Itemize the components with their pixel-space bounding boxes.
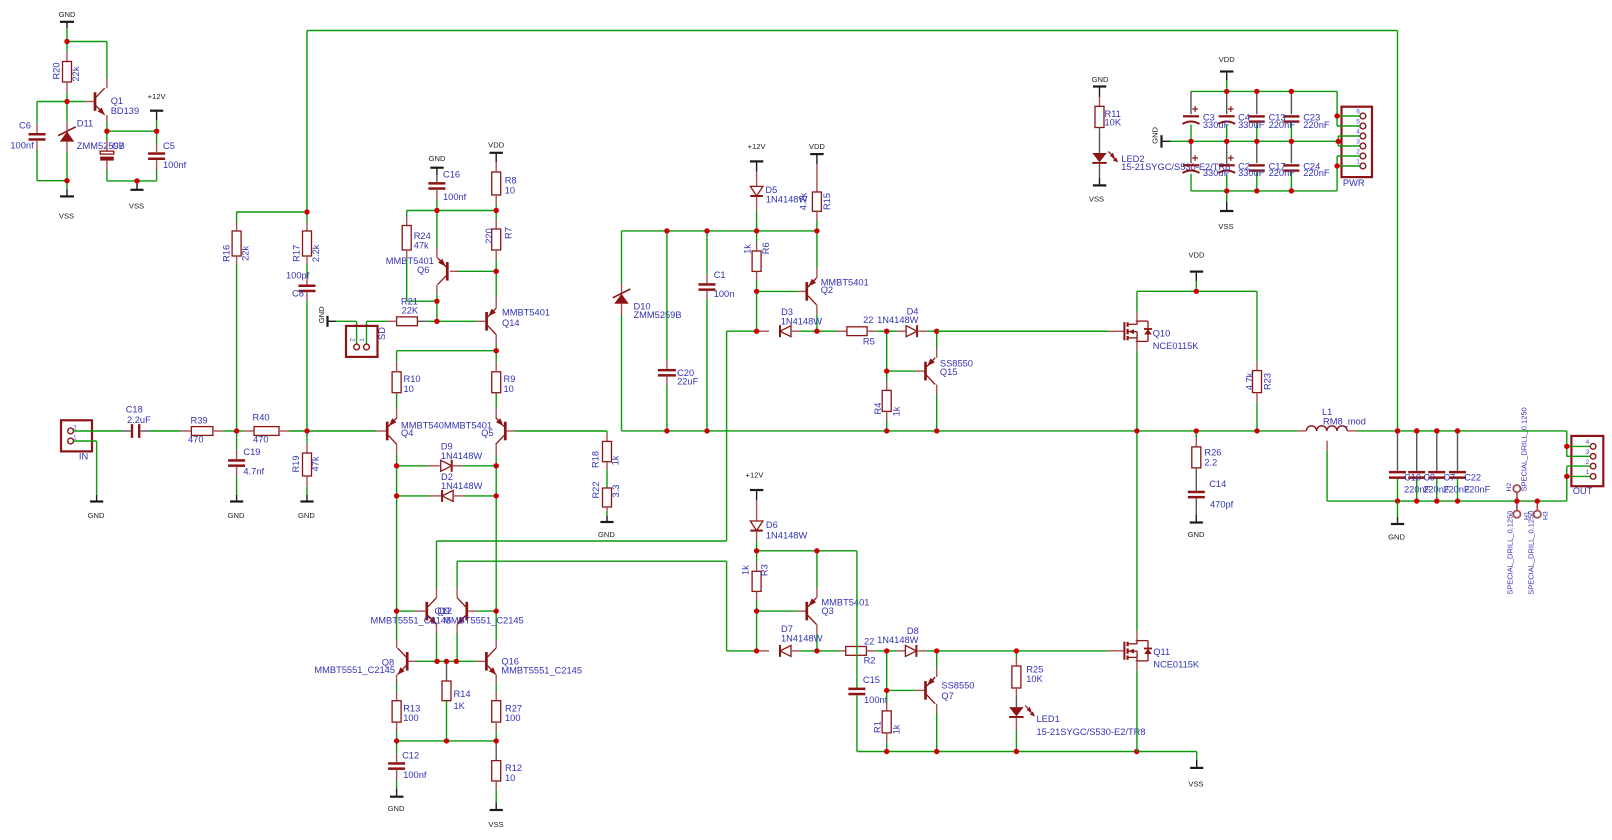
svg-text:220nF: 220nF xyxy=(1464,485,1491,495)
svg-text:MMBT5401: MMBT5401 xyxy=(502,308,550,318)
svg-text:OUT: OUT xyxy=(1573,486,1593,496)
svg-text:VDD: VDD xyxy=(488,141,505,150)
svg-text:R7: R7 xyxy=(504,227,514,239)
svg-text:2.2k: 2.2k xyxy=(311,244,321,262)
svg-text:R1: R1 xyxy=(872,721,882,733)
svg-text:1: 1 xyxy=(1586,469,1590,476)
svg-text:R3: R3 xyxy=(760,564,770,576)
svg-text:R40: R40 xyxy=(253,413,270,423)
svg-text:R17: R17 xyxy=(292,245,302,262)
svg-text:3: 3 xyxy=(1586,449,1590,456)
svg-text:VSS: VSS xyxy=(59,211,74,220)
svg-text:22: 22 xyxy=(863,315,873,325)
svg-text:H3: H3 xyxy=(1543,511,1550,520)
svg-text:100nf: 100nf xyxy=(10,141,34,151)
svg-text:1: 1 xyxy=(359,338,366,342)
svg-text:GND: GND xyxy=(88,511,105,520)
svg-text:100: 100 xyxy=(403,713,419,723)
svg-text:GND: GND xyxy=(59,10,76,19)
svg-text:Q14: Q14 xyxy=(502,318,520,328)
svg-text:100: 100 xyxy=(505,713,521,723)
svg-text:2.2uF: 2.2uF xyxy=(127,415,151,425)
svg-text:22k: 22k xyxy=(240,246,250,261)
svg-text:1N4148W: 1N4148W xyxy=(781,316,823,326)
svg-text:1N4148W: 1N4148W xyxy=(766,531,808,541)
svg-text:VDD: VDD xyxy=(1219,55,1236,64)
svg-text:L1: L1 xyxy=(1322,407,1332,417)
svg-text:R8: R8 xyxy=(505,176,517,186)
svg-text:VDD: VDD xyxy=(1188,250,1205,259)
svg-text:GND: GND xyxy=(429,154,446,163)
svg-text:VSS: VSS xyxy=(129,202,144,211)
svg-text:R9: R9 xyxy=(504,374,516,384)
svg-text:2: 2 xyxy=(1586,459,1590,466)
svg-text:4: 4 xyxy=(1356,129,1360,136)
svg-text:GND: GND xyxy=(598,530,615,539)
svg-text:R4: R4 xyxy=(873,403,883,415)
svg-text:C10: C10 xyxy=(1404,473,1421,483)
svg-text:Q4: Q4 xyxy=(401,428,413,438)
svg-text:1N4148W: 1N4148W xyxy=(877,315,919,325)
svg-text:3: 3 xyxy=(1356,139,1360,146)
svg-text:330uF: 330uF xyxy=(1203,120,1230,130)
svg-text:1k: 1k xyxy=(742,244,752,254)
svg-text:R27: R27 xyxy=(505,703,522,713)
svg-text:22K: 22K xyxy=(402,306,419,316)
svg-text:NCE0115K: NCE0115K xyxy=(1153,660,1200,670)
svg-text:GND: GND xyxy=(1388,533,1405,542)
svg-text:470: 470 xyxy=(253,435,269,445)
svg-text:R10: R10 xyxy=(404,374,421,384)
svg-text:R39: R39 xyxy=(191,416,208,426)
svg-text:R22: R22 xyxy=(591,481,601,498)
svg-text:4.7k: 4.7k xyxy=(1244,372,1254,390)
svg-text:R16: R16 xyxy=(221,245,231,262)
svg-text:1: 1 xyxy=(1356,159,1360,166)
svg-text:1N4148W: 1N4148W xyxy=(441,481,483,491)
svg-text:MMBT5551_C2145: MMBT5551_C2145 xyxy=(501,666,582,676)
svg-text:330uF: 330uF xyxy=(1238,120,1265,130)
svg-text:330uF: 330uF xyxy=(1238,168,1265,178)
svg-text:47k: 47k xyxy=(414,241,429,251)
svg-text:GND: GND xyxy=(317,306,326,323)
svg-text:Q15: Q15 xyxy=(940,367,958,377)
svg-text:Q6: Q6 xyxy=(417,265,429,275)
svg-text:GND: GND xyxy=(388,804,405,813)
svg-text:R25: R25 xyxy=(1026,665,1043,675)
svg-text:10: 10 xyxy=(404,384,414,394)
svg-text:47k: 47k xyxy=(310,456,320,471)
svg-text:Q11: Q11 xyxy=(1153,647,1170,657)
svg-text:2.2: 2.2 xyxy=(1204,458,1217,468)
svg-text:Q7: Q7 xyxy=(941,691,953,701)
svg-text:H2: H2 xyxy=(1506,483,1513,492)
svg-text:SD: SD xyxy=(377,327,387,340)
svg-text:Q9: Q9 xyxy=(438,606,450,616)
svg-text:C12: C12 xyxy=(402,751,419,761)
svg-text:15-21SYGC/S530-E2/TR8: 15-21SYGC/S530-E2/TR8 xyxy=(1037,727,1146,737)
svg-text:22uF: 22uF xyxy=(677,377,699,387)
svg-text:R13: R13 xyxy=(403,703,420,713)
svg-text:SPECIAL_DRILL_0.1250: SPECIAL_DRILL_0.1250 xyxy=(1526,511,1535,595)
svg-text:6: 6 xyxy=(1356,109,1360,116)
svg-text:NCE0115K: NCE0115K xyxy=(1153,341,1200,351)
svg-text:+12V: +12V xyxy=(746,471,765,480)
svg-text:MMBT5551_C2145: MMBT5551_C2145 xyxy=(371,616,452,626)
svg-text:D7: D7 xyxy=(781,624,793,634)
svg-text:D6: D6 xyxy=(766,520,778,530)
svg-text:220nF: 220nF xyxy=(1303,168,1330,178)
svg-text:10K: 10K xyxy=(1026,674,1043,684)
svg-text:Q5: Q5 xyxy=(481,428,493,438)
svg-text:100n: 100n xyxy=(714,289,735,299)
svg-text:C6: C6 xyxy=(19,121,31,131)
svg-text:+12V: +12V xyxy=(748,142,767,151)
svg-text:100pf: 100pf xyxy=(286,271,310,281)
svg-text:ZMM5259B: ZMM5259B xyxy=(634,310,682,320)
svg-text:R14: R14 xyxy=(454,689,471,699)
svg-text:GND: GND xyxy=(1188,530,1205,539)
svg-text:4.7k: 4.7k xyxy=(798,192,808,210)
svg-text:1N4148W: 1N4148W xyxy=(781,634,823,644)
svg-text:22k: 22k xyxy=(71,66,81,81)
svg-text:100nf: 100nf xyxy=(864,695,888,705)
svg-text:VSS: VSS xyxy=(1218,222,1233,231)
svg-text:D11: D11 xyxy=(77,118,93,128)
svg-text:Q3: Q3 xyxy=(821,606,833,616)
svg-text:R5: R5 xyxy=(863,336,875,346)
svg-text:1k: 1k xyxy=(892,724,902,734)
svg-text:10: 10 xyxy=(505,186,515,196)
svg-text:R26: R26 xyxy=(1204,448,1221,458)
svg-text:BD139: BD139 xyxy=(111,106,139,116)
svg-text:R18: R18 xyxy=(590,451,600,468)
svg-text:220: 220 xyxy=(484,228,494,244)
svg-text:4.7nf: 4.7nf xyxy=(243,467,264,477)
svg-text:R23: R23 xyxy=(1262,373,1272,390)
svg-text:R12: R12 xyxy=(505,763,522,773)
svg-text:C9: C9 xyxy=(1423,473,1435,483)
svg-text:R19: R19 xyxy=(291,455,301,472)
svg-text:SPECIAL_DRILL_0.1250: SPECIAL_DRILL_0.1250 xyxy=(1520,407,1529,491)
svg-text:10: 10 xyxy=(505,773,515,783)
svg-text:Q10: Q10 xyxy=(1153,329,1171,339)
svg-text:100nf: 100nf xyxy=(163,160,187,170)
svg-text:VSS: VSS xyxy=(488,820,503,829)
svg-text:R24: R24 xyxy=(414,231,431,241)
svg-text:330uF: 330uF xyxy=(1203,168,1230,178)
svg-text:C7: C7 xyxy=(1443,473,1455,483)
svg-text:Q2: Q2 xyxy=(821,285,833,295)
svg-text:R2: R2 xyxy=(864,656,876,666)
svg-text:5: 5 xyxy=(1356,119,1360,126)
svg-text:LED1: LED1 xyxy=(1037,714,1060,724)
svg-text:PWR: PWR xyxy=(1343,178,1365,188)
svg-text:C5: C5 xyxy=(163,141,175,151)
svg-text:4: 4 xyxy=(1586,439,1590,446)
svg-text:D5: D5 xyxy=(765,185,777,195)
svg-text:220nF: 220nF xyxy=(1269,120,1296,130)
svg-text:1k: 1k xyxy=(741,565,751,575)
svg-text:10K: 10K xyxy=(1105,118,1122,128)
svg-text:GND: GND xyxy=(1151,126,1160,143)
svg-text:GND: GND xyxy=(228,511,245,520)
svg-text:VSS: VSS xyxy=(1188,780,1203,789)
svg-text:1N4148W: 1N4148W xyxy=(441,451,483,461)
svg-text:GND: GND xyxy=(1092,75,1109,84)
svg-text:100nf: 100nf xyxy=(403,770,427,780)
svg-text:Q1: Q1 xyxy=(111,96,123,106)
svg-text:470: 470 xyxy=(188,435,204,445)
svg-text:C16: C16 xyxy=(443,169,460,179)
svg-text:220nF: 220nF xyxy=(1303,120,1330,130)
svg-text:100nf: 100nf xyxy=(443,192,467,202)
svg-text:C22: C22 xyxy=(1464,473,1481,483)
svg-text:VDD: VDD xyxy=(809,142,826,151)
svg-text:2: 2 xyxy=(1356,149,1360,156)
svg-text:VSS: VSS xyxy=(1089,195,1104,204)
svg-text:GND: GND xyxy=(298,511,315,520)
svg-text:R6: R6 xyxy=(761,242,771,254)
svg-text:R20: R20 xyxy=(51,62,61,79)
svg-text:470pf: 470pf xyxy=(1210,500,1234,510)
svg-text:MMBT5551_C2145: MMBT5551_C2145 xyxy=(443,616,524,626)
svg-text:SPECIAL_DRILL_0.1250: SPECIAL_DRILL_0.1250 xyxy=(1505,511,1514,595)
svg-text:C7: C7 xyxy=(112,141,124,151)
svg-text:2: 2 xyxy=(349,338,356,342)
svg-text:+12V: +12V xyxy=(148,92,167,101)
svg-text:1K: 1K xyxy=(454,701,466,711)
svg-text:SS8550: SS8550 xyxy=(941,681,974,691)
svg-text:C14: C14 xyxy=(1209,479,1226,489)
svg-text:220nF: 220nF xyxy=(1269,168,1296,178)
svg-text:MMBT5551_C2145: MMBT5551_C2145 xyxy=(314,665,395,675)
svg-text:C8: C8 xyxy=(292,289,304,299)
svg-text:C15: C15 xyxy=(863,675,880,685)
svg-text:10: 10 xyxy=(504,384,514,394)
svg-text:IN: IN xyxy=(79,451,88,461)
svg-text:1k: 1k xyxy=(891,406,901,416)
svg-text:RM8_mod: RM8_mod xyxy=(1323,417,1366,427)
svg-text:C1: C1 xyxy=(714,270,726,280)
svg-text:3.3: 3.3 xyxy=(611,485,621,498)
svg-text:1k: 1k xyxy=(611,455,621,465)
svg-text:1N4148W: 1N4148W xyxy=(877,635,919,645)
svg-text:C18: C18 xyxy=(126,405,143,415)
svg-text:R15: R15 xyxy=(822,193,832,210)
svg-text:22: 22 xyxy=(864,636,874,646)
svg-text:C19: C19 xyxy=(243,447,260,457)
